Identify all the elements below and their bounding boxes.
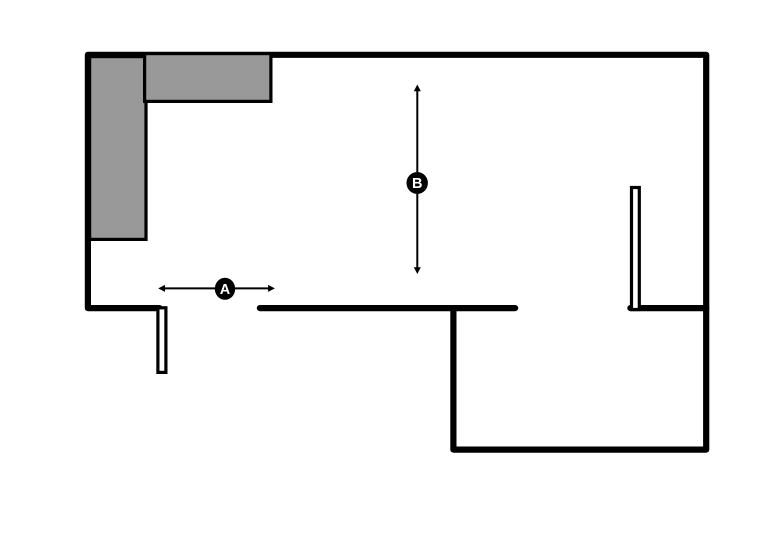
- arrowhead B top: [414, 85, 421, 92]
- dimension arrow B line: [416, 90, 418, 270]
- arrowhead A left: [158, 285, 165, 292]
- door leaf right: [632, 188, 640, 310]
- arrowhead B bottom: [414, 267, 421, 274]
- wall outer boundary with left door stub and lower-right room: [88, 55, 706, 450]
- label A: [215, 278, 235, 300]
- svg-text:B: B: [412, 176, 422, 192]
- arrowhead A right: [268, 285, 275, 292]
- wall right stub: [630, 305, 706, 311]
- sofa vertical section: [90, 57, 146, 240]
- svg-text:A: A: [220, 282, 231, 298]
- wall middle segment: [260, 305, 515, 311]
- dimension arrow A line: [163, 287, 270, 289]
- door leaf left: [158, 308, 166, 373]
- sofa horizontal section: [145, 54, 271, 102]
- label B: [407, 172, 428, 194]
